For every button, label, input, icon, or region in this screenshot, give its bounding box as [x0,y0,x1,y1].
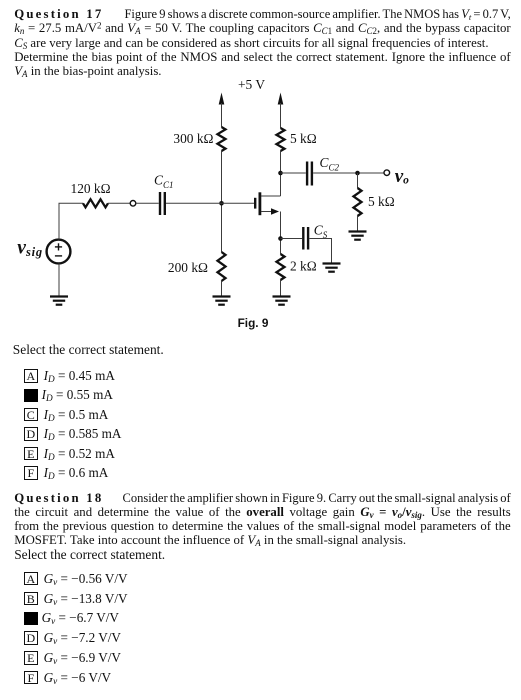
svg-text:5 kΩ: 5 kΩ [290,131,317,146]
Question 17 paragraph [14,7,511,78]
Question 18 paragraph [14,491,511,562]
node input terminal (open) [130,201,136,207]
wire gate bias rail [221,151,223,252]
source vsig [47,240,71,264]
node output junction [355,171,360,176]
capacitor CS [303,227,308,250]
ground (source) [273,297,291,305]
node drain [278,171,283,176]
wire R5k load to ground [357,216,359,232]
svg-text:vo: vo [395,166,409,187]
resistor 2 kΩ [277,254,285,280]
wire CC2 to output terminal [313,172,384,174]
svg-text:5 kΩ: 5 kΩ [368,194,395,209]
svg-text:2 kΩ: 2 kΩ [290,259,317,274]
wire source to node [280,212,282,255]
wire source node to CS [281,238,303,240]
resistor 5 kΩ (load) [354,188,362,216]
capacitor CC2 [307,162,312,186]
Q18 options [24,571,128,587]
wire VDD-left to R300k [221,103,223,127]
ground (vsig) [50,297,68,305]
ground (bias divider) [213,297,231,305]
wire R200k to ground [221,281,223,297]
wire CC1 to gate [166,202,254,204]
node gate-bias junction [219,201,224,206]
svg-text:+5 V: +5 V [238,77,265,92]
svg-text:120 kΩ: 120 kΩ [71,181,111,196]
svg-text:200 kΩ: 200 kΩ [168,260,208,275]
resistor 300 kΩ [218,127,226,151]
Select statement 1 [13,343,510,357]
wire vsig to ground [58,263,60,297]
ground (CS) [323,264,341,272]
node source [278,236,283,241]
wire R2k to ground [280,280,282,297]
resistor 200 kΩ [218,252,226,281]
svg-text:CC1: CC1 [154,173,173,191]
wire R120k to input terminal [108,202,130,204]
wire CS to ground [309,239,331,265]
svg-text:300 kΩ: 300 kΩ [173,131,213,146]
wire VDD-right to R5k [280,103,282,128]
svg-text:CC2: CC2 [320,155,340,173]
Q17 options [24,368,115,384]
transistor M1 NMOS [255,192,280,215]
node output terminal (open) [384,170,390,176]
wire drain to node [280,151,282,196]
svg-text:vsig: vsig [17,238,43,259]
ground (load) [349,232,367,240]
resistor 120 kΩ [83,199,108,207]
VDD arrow left [219,93,225,105]
wire drain node to CC2 [281,172,306,174]
wire terminal to CC1 [136,202,159,204]
capacitor CC1 [160,192,165,215]
wire output node to R5k load [357,173,359,188]
wire vsig to R120k [59,203,83,239]
svg-text:CS: CS [314,223,328,241]
svg-text:Fig. 9: Fig. 9 [238,316,269,330]
resistor 5 kΩ (drain) [277,128,285,151]
VDD arrow right [278,93,284,105]
